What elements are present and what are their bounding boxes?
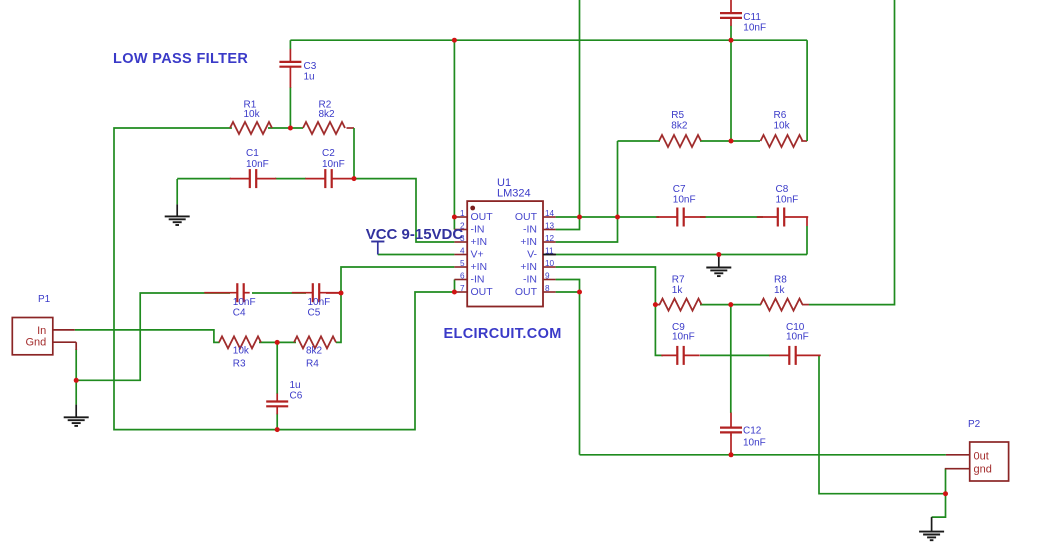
op-amp U1 LM324 body — [467, 201, 543, 306]
capacitor C6 — [266, 394, 288, 415]
wire bottom bus to P2 — [580, 454, 946, 456]
wire pin10 link — [556, 267, 656, 305]
wire pin1 riser — [453, 40, 455, 229]
node top-pin1 — [452, 38, 457, 43]
wire C11 bottom link — [730, 26, 732, 142]
wire pin8 out — [556, 292, 580, 455]
svg-text:10nF: 10nF — [786, 332, 809, 343]
node R7 left — [653, 302, 658, 307]
wire R1 left loop — [114, 128, 454, 430]
wire x579 top drop — [579, 0, 581, 217]
svg-text:13: 13 — [545, 221, 555, 230]
svg-text:10nF: 10nF — [322, 159, 345, 170]
resistor R2 — [303, 99, 345, 134]
node V- ground — [716, 252, 721, 257]
wire vcc to pin4 — [378, 254, 455, 256]
capacitor C9 — [661, 346, 699, 365]
svg-text:0ut: 0ut — [974, 451, 989, 463]
svg-text:10: 10 — [545, 259, 555, 268]
svg-text:OUT: OUT — [515, 286, 538, 298]
svg-text:10nF: 10nF — [673, 195, 696, 206]
resistor R6 — [761, 110, 803, 147]
C2 label — [322, 148, 345, 170]
node R1-R2-C3 — [288, 126, 293, 131]
svg-text:12: 12 — [545, 234, 555, 243]
wire R7-R8 mid — [700, 304, 761, 306]
node pin8 — [577, 290, 582, 295]
svg-text:VCC 9-15VDC: VCC 9-15VDC — [366, 226, 464, 243]
connector P2 — [945, 442, 1009, 481]
C7 label — [673, 184, 696, 205]
wire C3 bottom link — [289, 87, 291, 128]
svg-text:4: 4 — [460, 246, 465, 255]
node pin7 — [452, 290, 457, 295]
capacitor C1 — [230, 169, 276, 188]
svg-text:OUT: OUT — [471, 211, 494, 223]
C10 label — [786, 322, 809, 343]
svg-text:+IN: +IN — [471, 261, 488, 273]
capacitor C10 — [769, 346, 820, 365]
U1 pin 7 — [454, 284, 493, 298]
capacitor C2 — [305, 169, 355, 188]
svg-text:+IN: +IN — [520, 261, 537, 273]
U1 pin 6 — [454, 271, 484, 285]
wire C1-C2 mid — [275, 178, 306, 180]
svg-text:Gnd: Gnd — [26, 337, 47, 349]
C9 label — [672, 322, 695, 343]
svg-text:LM324: LM324 — [497, 187, 531, 199]
wire V- row — [556, 254, 807, 256]
wire C6 top — [276, 342, 278, 394]
node pin12 tap — [615, 215, 620, 220]
node top-C11 — [729, 38, 734, 43]
svg-text:9: 9 — [545, 271, 550, 280]
U1 pin 8 — [515, 284, 556, 298]
svg-text:1k: 1k — [774, 285, 786, 296]
capacitor C11 — [720, 0, 742, 26]
U1 pin 13 — [523, 221, 556, 235]
svg-text:C7: C7 — [673, 184, 686, 195]
svg-text:10k: 10k — [244, 109, 261, 120]
C6 label — [290, 380, 303, 402]
svg-text:+IN: +IN — [520, 236, 537, 248]
U1 reference label — [497, 177, 531, 200]
wire pin12 link riser — [556, 141, 618, 242]
C12 label — [743, 426, 766, 449]
svg-text:V-: V- — [527, 249, 537, 261]
node R7-R8-C12 — [728, 302, 733, 307]
svg-text:1k: 1k — [672, 285, 684, 296]
svg-text:7: 7 — [460, 284, 465, 293]
C5 label — [308, 297, 331, 318]
svg-text:C12: C12 — [743, 426, 762, 437]
wire P2 gnd to ground — [932, 494, 946, 517]
wire C6 bottom — [276, 414, 278, 430]
wire C4-C5 mid — [252, 292, 306, 294]
wire R4 right to C5 junction — [336, 293, 341, 342]
svg-text:-IN: -IN — [471, 224, 485, 236]
resistor R4 — [294, 336, 336, 369]
node P1 gnd — [74, 378, 79, 383]
node C12 bottom — [729, 452, 734, 457]
svg-text:V+: V+ — [471, 249, 484, 261]
svg-text:C1: C1 — [246, 148, 259, 159]
svg-text:gnd: gnd — [974, 463, 992, 475]
wire R8 right lead — [802, 304, 809, 306]
node R5-R6-C11 — [729, 139, 734, 144]
wire C2 to pin3 — [354, 179, 454, 242]
wire Gnd net P1 — [76, 293, 230, 380]
wire top bus — [290, 39, 807, 41]
wire V- stub — [543, 254, 556, 256]
svg-text:R8: R8 — [774, 274, 787, 285]
ground V- rail — [706, 255, 731, 277]
C3 label — [304, 61, 317, 82]
wire pin13 link — [556, 217, 580, 230]
wire R3-R4 mid — [259, 341, 296, 343]
resistor R5 — [659, 110, 701, 147]
C1 label — [246, 148, 269, 170]
resistor R1 — [230, 99, 272, 134]
wire R7 left dot lead — [655, 304, 660, 306]
svg-text:P1: P1 — [38, 294, 51, 305]
svg-text:8k2: 8k2 — [306, 346, 323, 357]
resistor R3 — [219, 336, 261, 369]
node pin1 — [452, 215, 457, 220]
svg-text:10nF: 10nF — [672, 332, 695, 343]
capacitor C4 — [204, 283, 249, 302]
U1 pin 4 — [454, 246, 483, 260]
wire C9-C10 mid — [700, 354, 770, 356]
wire C1 left — [177, 178, 231, 180]
svg-text:8k2: 8k2 — [671, 121, 688, 132]
svg-text:In: In — [37, 325, 46, 337]
C11 label — [743, 12, 766, 34]
svg-text:P2: P2 — [968, 419, 981, 430]
capacitor C3 — [279, 49, 301, 88]
svg-text:C5: C5 — [308, 307, 321, 318]
svg-text:6: 6 — [460, 271, 465, 280]
ground P1 — [64, 380, 89, 426]
wire R6 right riser — [801, 140, 807, 142]
svg-text:R4: R4 — [306, 359, 319, 370]
svg-text:5: 5 — [460, 259, 465, 268]
svg-text:1u: 1u — [290, 380, 301, 391]
svg-text:11: 11 — [545, 246, 554, 255]
wire pin9 link — [556, 280, 580, 293]
wire C7-C8 mid — [700, 216, 763, 218]
wire R6 riser — [806, 40, 808, 141]
svg-text:C11: C11 — [743, 12, 761, 23]
U1 pin 11 — [527, 246, 556, 260]
capacitor C5 — [292, 283, 342, 302]
svg-text:R5: R5 — [671, 110, 684, 121]
svg-text:-IN: -IN — [471, 274, 485, 286]
C8 label — [776, 184, 799, 205]
wire R5-R6 mid — [700, 140, 760, 142]
svg-text:10nF: 10nF — [743, 23, 766, 34]
svg-text:10nF: 10nF — [743, 437, 766, 448]
wire R2 to C2 junction — [353, 128, 355, 179]
ground near C1 — [165, 179, 190, 225]
svg-text:1: 1 — [460, 209, 465, 218]
U1 pin 9 — [523, 271, 556, 285]
wire C12 top link — [730, 305, 732, 413]
svg-text:C6: C6 — [290, 391, 303, 402]
node pin13 tap — [577, 215, 582, 220]
wire C5 to junction — [326, 292, 341, 294]
svg-text:OUT: OUT — [515, 211, 538, 223]
wire C9 left drop — [655, 305, 663, 356]
node C6 bottom — [275, 427, 280, 432]
U1 pin 12 — [520, 234, 555, 248]
resistor R8 — [761, 274, 803, 310]
node C2-R2 — [352, 176, 357, 181]
svg-text:LOW PASS FILTER: LOW PASS FILTER — [113, 51, 248, 67]
svg-text:10nF: 10nF — [776, 195, 799, 206]
capacitor C8 — [757, 208, 808, 227]
svg-text:-IN: -IN — [523, 274, 537, 286]
svg-text:+IN: +IN — [471, 236, 488, 248]
U1 pin 10 — [520, 259, 555, 273]
wire R8 right riser — [809, 0, 895, 305]
wire In signal — [75, 330, 220, 343]
svg-text:ELCIRCUIT.COM: ELCIRCUIT.COM — [444, 326, 562, 342]
svg-text:8k2: 8k2 — [319, 109, 336, 120]
capacitor C12 — [720, 413, 742, 436]
ground P2 — [919, 517, 944, 540]
wire pin5 link — [341, 267, 454, 293]
U1 pin-1 marker — [470, 206, 475, 211]
wire C10 to P2 gnd — [819, 355, 946, 493]
svg-text:C8: C8 — [776, 184, 789, 195]
svg-text:C4: C4 — [233, 307, 246, 318]
wire C3 top lead — [289, 40, 291, 49]
C4 label — [233, 297, 256, 318]
svg-text:10k: 10k — [774, 121, 791, 132]
wire R5 left — [618, 140, 661, 142]
svg-text:-IN: -IN — [523, 224, 537, 236]
capacitor C7 — [656, 208, 705, 227]
connector P1 — [12, 318, 76, 355]
wire C8 corner red — [806, 217, 808, 226]
U1 pin 3 — [454, 234, 487, 248]
svg-text:1u: 1u — [304, 71, 315, 82]
U1 pin 1 — [454, 209, 493, 223]
svg-text:8: 8 — [545, 284, 550, 293]
svg-text:10k: 10k — [233, 346, 250, 357]
wire P2 gnd link — [945, 469, 947, 494]
node C5-R4-pin5 — [339, 291, 344, 296]
VCC power symbol — [371, 242, 384, 255]
wire C8 corner drop — [806, 226, 808, 255]
node P2 gnd — [943, 491, 948, 496]
wire pin6 to pin7 — [454, 280, 456, 293]
resistor R7 — [660, 274, 702, 310]
svg-text:10nF: 10nF — [246, 159, 269, 170]
U1 pin 14 — [515, 209, 556, 223]
U1 pin 2 — [454, 221, 484, 235]
U1 pin 5 — [454, 259, 487, 273]
svg-text:C2: C2 — [322, 148, 335, 159]
svg-text:R7: R7 — [672, 274, 685, 285]
svg-text:14: 14 — [545, 209, 555, 218]
wire C12 bottom lead — [730, 435, 732, 455]
wire R1-R2 mid — [268, 127, 303, 129]
svg-text:R6: R6 — [774, 110, 787, 121]
svg-text:R3: R3 — [233, 359, 246, 370]
wire R2 right lead — [347, 127, 355, 129]
wire pin14 row — [556, 216, 659, 218]
svg-text:OUT: OUT — [471, 286, 494, 298]
node R3-R4-C6 — [275, 340, 280, 345]
